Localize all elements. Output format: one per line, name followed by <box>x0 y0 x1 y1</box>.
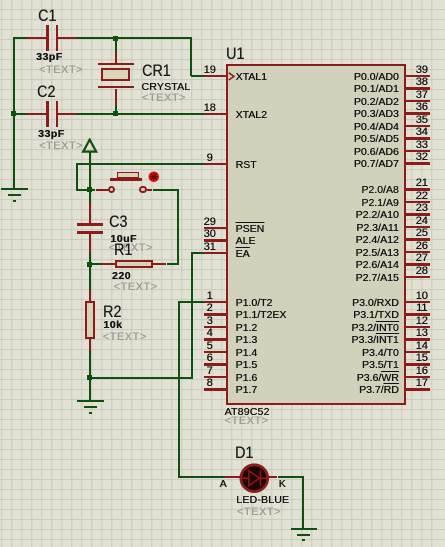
U1 pin 11 P3.1/TXD <box>405 313 430 315</box>
U1 pin 35 P0.4/AD4 <box>405 125 430 127</box>
LED D1 <box>225 476 241 478</box>
U1 pin 6 P1.5 <box>204 363 227 365</box>
U1 pin 17 P3.7/RD <box>405 388 430 390</box>
label C2 <box>37 83 55 100</box>
U1 pin 24 P2.3/A11 <box>405 226 430 228</box>
U1 pin 13 P3.3/INT1 <box>405 338 430 340</box>
U1 pin 31 EA <box>204 252 227 254</box>
value 33pF (C1) <box>36 52 63 63</box>
U1 pin 4 P1.3 <box>204 338 227 340</box>
crystal CR1 <box>115 52 117 64</box>
label C1 <box>38 7 56 24</box>
wire XTAL1 net: C1 right to corner <box>77 37 191 39</box>
U1 pin 26 P2.5/A13 <box>405 251 430 253</box>
wire R2 bottom stem <box>89 351 91 379</box>
C2 property placeholder <box>39 141 83 152</box>
wire XTAL1 net: vertical drop to pin 19 <box>190 37 192 76</box>
C1 property placeholder <box>39 65 83 76</box>
label R1 <box>114 241 132 258</box>
wire P1.0 to LED anode vertical <box>178 301 180 478</box>
U1 pin 33 P0.6/AD6 <box>405 150 430 152</box>
wire VCC stem from power arrow <box>89 151 91 191</box>
U1 pin 10 P3.0/RXD <box>405 301 430 303</box>
node VCC junction <box>87 187 92 192</box>
wire EA pin 31 horizontal <box>191 252 205 254</box>
U1 pin 25 P2.4/A12 <box>405 238 430 240</box>
node XTAL2 junction at crystal bottom <box>113 111 118 116</box>
op-amp U1 AT89C52 body <box>226 64 405 405</box>
R1 property placeholder <box>114 282 158 293</box>
wire LED anode row <box>178 476 225 478</box>
wire LED cathode to corner <box>278 476 305 478</box>
U1 pin 8 P1.7 <box>204 388 227 390</box>
wire vertical button to R1 right <box>177 189 179 266</box>
U1 pin 28 P2.7/A15 <box>405 276 430 278</box>
U1 pin 37 P0.2/AD2 <box>405 100 430 102</box>
U1 pin 29 PSEN <box>204 227 227 229</box>
U1 pin 30 ALE <box>204 239 227 241</box>
U1 pin 2 P1.1/T2EX <box>204 313 227 315</box>
wire R2 top stem <box>89 263 91 290</box>
wire P1.0 pin 1 horizontal <box>178 301 205 303</box>
wire RST net horizontal to pin 9 <box>77 163 205 165</box>
U1 property placeholder <box>225 416 269 427</box>
R2 property placeholder <box>103 332 147 343</box>
wire EA vertical drop <box>191 252 193 379</box>
value 10k <box>103 320 122 331</box>
U1 pin 5 P1.4 <box>204 351 227 353</box>
power terminal VCC (up arrow) <box>81 138 99 154</box>
CR1 property placeholder <box>142 93 186 104</box>
value AT89C52 <box>225 407 270 418</box>
wire node row VCC/RST/C3/button <box>76 189 96 191</box>
label R2 <box>103 303 121 320</box>
label CR1 <box>142 62 171 79</box>
label U1 <box>226 45 244 62</box>
wire C2 left lead to rail <box>14 113 27 115</box>
ground (reset divider) <box>77 400 103 402</box>
node rail/C2 junction <box>11 111 16 116</box>
wire RST net vertical drop <box>76 163 78 191</box>
U1 pin 27 P2.6/A14 <box>405 263 430 265</box>
node RST-R divider junction <box>87 262 92 267</box>
U1 pin 39 P0.0/AD0 <box>405 75 430 77</box>
ground (LED) <box>291 528 317 530</box>
U1 pin 1 P1.0/T2 <box>204 301 227 303</box>
U1 pin 36 P0.3/AD3 <box>405 112 430 114</box>
node R2 bottom / ground junction <box>87 375 92 380</box>
wire C3 top stem <box>89 190 91 204</box>
wire left rail: C1 corner down to ground <box>13 37 15 190</box>
capacitor C1 <box>27 37 47 39</box>
value LED-BLUE <box>236 495 289 506</box>
XTAL1 clock chevron <box>228 72 236 81</box>
LED anode label A <box>220 479 227 490</box>
value 220 <box>112 271 131 282</box>
U1 pin 23 P2.2/A10 <box>405 213 430 215</box>
U1 pin 12 P3.2/INT0 <box>405 326 430 328</box>
U1 pin 3 P1.2 <box>204 326 227 328</box>
push button (reset) <box>96 189 109 191</box>
wire ground row to EA drop <box>90 377 193 379</box>
value 10uF <box>110 234 137 245</box>
capacitor C3 <box>89 203 91 223</box>
U1 pin 16 P3.6/WR <box>405 376 430 378</box>
U1 pin 15 P3.5/T1 <box>405 363 430 365</box>
U1 pin 22 P2.1/A9 <box>405 201 430 203</box>
wire XTAL2 net: C2 right to pin 18 <box>77 113 205 115</box>
D1 property placeholder <box>237 507 281 518</box>
wire button right to corner <box>153 189 180 191</box>
LED cathode label K <box>279 479 286 490</box>
wire C1 left lead to rail <box>14 37 27 39</box>
label D1 <box>235 444 253 461</box>
value CRYSTAL <box>141 82 190 93</box>
resistor R1 <box>101 263 115 265</box>
C3 property placeholder <box>109 243 153 254</box>
U1 pin 18 XTAL2 <box>204 113 227 115</box>
capacitor C2 <box>27 113 47 115</box>
wire R1 right lead to corner <box>167 263 179 265</box>
U1 pin 34 P0.5/AD5 <box>405 137 430 139</box>
U1 pin 32 P0.7/AD7 <box>405 162 430 164</box>
U1 pin 21 P2.0/A8 <box>405 188 430 190</box>
U1 pin 9 RST <box>204 163 227 165</box>
U1 pin 7 P1.6 <box>204 376 227 378</box>
wire XTAL1 net: into pin 19 <box>191 75 206 77</box>
wire R1 left to junction <box>90 263 101 265</box>
resistor R2 <box>89 290 91 301</box>
ground (left rail) <box>1 188 27 190</box>
button actuator marker (red) <box>148 171 160 183</box>
label C3 <box>109 213 127 230</box>
U1 pin 14 P3.4/T0 <box>405 351 430 353</box>
node XTAL1 junction at crystal top <box>113 36 118 41</box>
U1 pin 19 XTAL1 <box>204 75 227 77</box>
wire C3 bottom stem <box>89 252 91 266</box>
wire R2 ground stem <box>89 377 91 402</box>
value 33pF (C2) <box>38 129 65 140</box>
wire LED ground vertical <box>302 476 304 528</box>
U1 pin 38 P0.1/AD1 <box>405 87 430 89</box>
